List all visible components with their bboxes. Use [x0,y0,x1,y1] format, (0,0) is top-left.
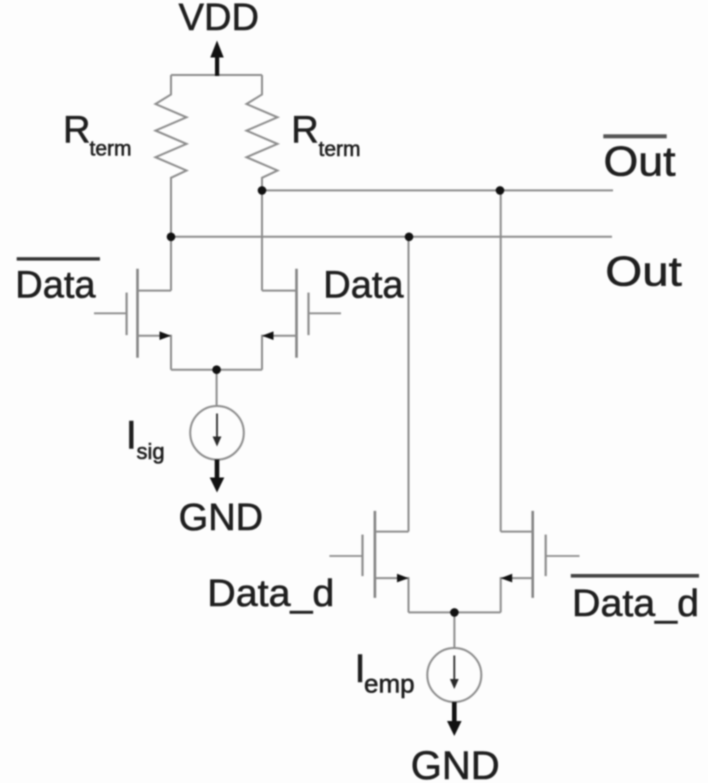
svg-text:GND: GND [179,497,263,539]
transistor Q3 channel bar [374,511,377,598]
wire net Out [171,236,612,238]
transistor Q4 gate bar [545,535,547,577]
transistor Q3 drain lead [375,531,409,533]
transistor Q1 drain lead [138,290,172,292]
current source I_emp inner arrow [453,656,455,681]
svg-text:GND: GND [411,744,500,783]
VDD arrow [215,54,219,76]
label Data_d-bar (overline) [571,574,699,578]
transistor Q2 source lead [262,336,297,370]
transistor Q1 left of first pair: gate lead [94,312,127,314]
arrowhead Q1 source [160,331,172,340]
node dot Out net left [167,233,176,242]
svg-text:Data: Data [323,265,404,307]
svg-text:Data_d: Data_d [572,583,699,625]
svg-text:R: R [63,110,90,152]
wire tail of first pair [171,369,262,371]
transistor Q2 right of first pair: gate lead [309,312,342,314]
label Data-bar (overline) [17,257,100,260]
wire tail of second pair [409,611,501,613]
node dot tail 2 [450,608,459,617]
transistor Q2 channel bar [295,269,298,358]
svg-text:VDD: VDD [179,0,259,39]
wire tail down to current source I_sig [216,370,218,406]
transistor Q4 drain lead [501,531,533,533]
node dot Out net at Q3 drain [405,233,414,242]
current source I_emp circle [427,648,481,702]
GND arrow 2 [452,702,457,723]
transistor Q4 source lead [501,578,533,612]
svg-text:term: term [90,138,132,161]
svg-text:Out: Out [605,248,682,295]
transistor Q4 channel bar [531,511,534,598]
GND arrow 1 [215,460,220,480]
transistor Q3 gate bar [361,535,363,577]
resistor R_term left [156,75,187,291]
wire top rail VDD [171,74,262,76]
transistor Q2 gate bar [307,293,309,336]
wire Q4 drain up to Out-bar node [500,190,502,531]
transistor Q1 channel bar [136,269,139,358]
wire Q3 drain up to Out node [408,237,410,532]
arrowhead Q4 source [501,574,513,583]
transistor Q4 right of second pair: gate lead [546,555,580,557]
node dot Out-bar net at Q4 drain [496,186,505,195]
transistor Q2 drain lead [262,290,297,292]
resistor R_term right [247,75,278,291]
label Out-bar (overline) [603,134,666,138]
svg-text:term: term [319,138,361,161]
transistor Q1 gate bar [125,293,127,336]
current source I_sig inner arrow [216,414,218,439]
svg-text:sig: sig [137,439,165,464]
arrowhead Q3 source [397,574,409,583]
wire tail down to current source I_emp [453,612,455,648]
wire net Out-bar [262,189,613,191]
svg-text:Data_d: Data_d [207,573,334,615]
node dot Out-bar net left [258,186,267,195]
current source I_sig circle [190,406,244,460]
svg-text:Out: Out [604,138,676,185]
transistor Q3 left of second pair: gate lead [329,555,362,557]
transistor Q1 source lead [138,336,172,370]
transistor Q3 source lead [375,578,409,612]
arrowhead Q2 source [262,331,274,340]
svg-text:R: R [291,110,318,152]
svg-text:emp: emp [364,669,415,699]
node dot tail 1 [212,365,221,374]
svg-text:I: I [126,414,137,458]
svg-text:Data: Data [15,265,96,307]
